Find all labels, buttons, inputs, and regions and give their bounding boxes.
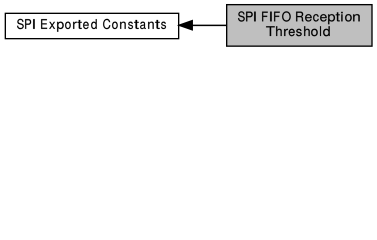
node N1 label line 1: "SPI FIFO Reception" xyxy=(238,11,360,24)
wire: edge from N1 to N2 xyxy=(191,24,226,26)
background xyxy=(0,0,377,51)
node N1 box: SPI FIFO Reception Threshold (current, gray) xyxy=(227,5,372,47)
arrowhead at N2 xyxy=(179,21,192,30)
node N2 box: SPI Exported Constants xyxy=(5,13,178,38)
node N2 label: "SPI Exported Constants" xyxy=(17,19,166,32)
node N1 label line 2: "Threshold" xyxy=(266,26,330,36)
